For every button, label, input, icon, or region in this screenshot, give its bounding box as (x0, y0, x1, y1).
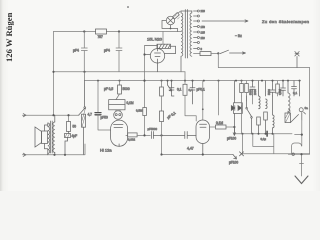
wire jack loop (288, 143, 309, 154)
junction tick (266, 131, 268, 137)
resistor R10 (160, 111, 164, 122)
transformer taps (194, 10, 200, 50)
capacitor C1 (81, 32, 87, 72)
wire transformer top jumper (181, 10, 192, 12)
resistor R9 frame (109, 100, 125, 105)
capacitor arrow down (233, 127, 236, 136)
svg-text:0: 0 (201, 47, 203, 51)
wire mains line (194, 52, 201, 54)
wire bottom right rail (236, 133, 292, 135)
wire grid drop (144, 46, 146, 108)
capacitor C6 (250, 81, 255, 96)
node bl2 (64, 154, 66, 156)
wire railA-railB link (85, 72, 186, 81)
wire bottom left rail (26, 144, 85, 155)
resistor R2 diagonal fuse (172, 12, 180, 32)
svg-text:6a: 6a (305, 106, 309, 110)
svg-text:μF5000: μF5000 (148, 127, 158, 131)
node AF resistor (67, 114, 69, 116)
svg-text:50: 50 (73, 125, 77, 129)
svg-text:Zu den Skalenlampen: Zu den Skalenlampen (262, 19, 309, 24)
transformer T1 primary (181, 11, 183, 72)
capacitor Cg3 (185, 132, 196, 139)
node rail A x84 (83, 71, 85, 73)
labels vertical (249, 89, 283, 95)
ground arrow small (233, 155, 237, 160)
transformer T1 secondary (190, 11, 192, 56)
wire cap drop (97, 81, 99, 112)
resistor R11 (184, 81, 186, 85)
coil L5 former (285, 109, 291, 123)
svg-text:μF 0,5: μF 0,5 (104, 87, 113, 91)
wire right border (309, 68, 311, 155)
svg-text:4,7: 4,7 (88, 113, 93, 117)
coil L2 (264, 81, 268, 134)
tap labels (201, 9, 206, 51)
capacitor C3 series (95, 113, 101, 115)
wire antenna line (218, 67, 309, 69)
wire S3 drop (242, 96, 253, 134)
node dots bottom (242, 133, 274, 135)
svg-text:220: 220 (201, 9, 206, 13)
wire switch drop (217, 53, 219, 67)
resistor R13 (241, 81, 243, 84)
wire lamp feed arrow (202, 20, 248, 22)
svg-text:0,1: 0,1 (293, 91, 298, 95)
svg-text:Hi 12a: Hi 12a (100, 148, 112, 153)
tube V2 (111, 120, 128, 146)
switch S3 (247, 96, 252, 134)
resistor R3 (200, 52, 211, 56)
diode D1 (114, 110, 123, 119)
output transformer T2 primary (48, 123, 50, 155)
wire left bus (53, 32, 55, 116)
resistor R1 (96, 29, 107, 34)
svg-text:μF 0,1: μF 0,1 (166, 111, 176, 120)
wire R10 down (161, 122, 163, 155)
capacitor C9 (65, 132, 71, 155)
svg-text:4,47: 4,47 (187, 147, 194, 151)
resistor R12 (210, 126, 216, 128)
resistor R6 (119, 81, 121, 85)
capacitor C5 (190, 81, 195, 104)
node grid (143, 80, 145, 82)
wire V3 screen (218, 81, 220, 115)
terminal X (240, 152, 244, 156)
resistor R16 (68, 115, 70, 121)
capacitor C4 (169, 81, 174, 96)
node jack (300, 153, 302, 155)
svg-text:0,1μ: 0,1μ (261, 137, 267, 141)
switch S1 (220, 50, 246, 54)
wire AF link segment (137, 134, 150, 136)
svg-text:5000: 5000 (249, 89, 253, 95)
capacitor Ck (151, 132, 184, 139)
terminal AF1 (23, 114, 27, 117)
diodes pair (231, 81, 242, 134)
node R12 (233, 126, 235, 128)
tube V1 (145, 44, 176, 71)
wire rail B (85, 80, 301, 82)
capacitor C2 (116, 32, 122, 72)
node C (217, 52, 219, 54)
svg-text:0,5M: 0,5M (136, 109, 143, 113)
title 126 W Ruegen (4, 13, 14, 62)
resistor R15 (277, 81, 279, 84)
transformer T1 core (185, 10, 187, 59)
svg-text:μF0,1: μF0,1 (197, 88, 205, 92)
output transformer T2 core (51, 121, 53, 153)
svg-text:15L N20: 15L N20 (147, 37, 163, 42)
svg-text:125: 125 (201, 31, 206, 35)
capacitor C8 (281, 81, 286, 96)
wire AF line (26, 114, 79, 116)
wire ground stem (300, 154, 304, 176)
svg-text:0,002: 0,002 (128, 138, 135, 142)
node AF link2 (160, 134, 162, 136)
resistor R9 horizontal (109, 104, 125, 109)
wire V3 anode (202, 81, 204, 120)
speaker terminals (23, 153, 27, 156)
svg-text:0,4: 0,4 (189, 88, 194, 92)
wire lamp drop (162, 32, 164, 45)
wire mid bottom rail (162, 154, 234, 156)
svg-text:757: 757 (98, 35, 104, 39)
speaker SP (35, 125, 48, 155)
node mid rail (160, 153, 162, 155)
wire grid V3 (185, 95, 196, 121)
node AF x54 (52, 114, 54, 116)
node V3 top (202, 108, 204, 110)
tube V3 (196, 120, 210, 155)
ground arrow (295, 176, 308, 184)
svg-text:μF4: μF4 (73, 49, 79, 53)
wire top rail (54, 31, 182, 33)
coil L4 big (288, 81, 290, 113)
node A (83, 30, 85, 32)
node grid top (143, 53, 145, 55)
wire AF link (126, 134, 128, 136)
svg-text:μF50: μF50 (101, 116, 109, 120)
wire bottom loop left (243, 134, 310, 154)
svg-text:~ Bz: ~ Bz (235, 34, 242, 38)
switch S2 (79, 81, 86, 116)
svg-text:0,1: 0,1 (177, 88, 182, 92)
terminal ring (292, 153, 294, 155)
switch S4 (291, 81, 306, 123)
svg-text:2000: 2000 (253, 89, 257, 95)
wire mains to node (212, 52, 219, 54)
svg-text:0,1M: 0,1M (216, 121, 223, 125)
resistor Rc (128, 133, 137, 137)
node jack top (301, 134, 303, 136)
coil L3 (273, 96, 275, 134)
resistor R14 (246, 81, 248, 84)
diode arrow (168, 81, 172, 91)
svg-text:μF100: μF100 (229, 161, 238, 165)
wire R10 link (161, 96, 163, 111)
svg-text:150: 150 (201, 25, 206, 29)
wire cap to tube (98, 115, 111, 130)
node railB dots (97, 80, 301, 82)
wire jack link (295, 120, 302, 146)
svg-text:μF100: μF100 (227, 137, 236, 141)
resistor Rg (143, 108, 147, 116)
svg-text:μF4: μF4 (104, 49, 110, 53)
node rail A left (52, 71, 54, 73)
node B (118, 30, 120, 32)
coil L1 (257, 81, 261, 134)
resistor R10a (161, 81, 163, 87)
svg-text:110: 110 (201, 36, 206, 40)
resistor R4 hatched (145, 44, 176, 53)
wire rail A (54, 71, 186, 73)
output transformer T2 secondary (53, 115, 55, 155)
svg-text:4μF: 4μF (72, 134, 78, 138)
dust speck (127, 6, 129, 8)
lamp La (162, 16, 178, 29)
svg-text:0,1M: 0,1M (127, 101, 134, 105)
resistor R7 (82, 108, 86, 155)
svg-text:5000: 5000 (123, 87, 130, 91)
capacitor C7 (270, 81, 275, 96)
antenna terminal (295, 52, 299, 68)
wire R6 to R9 (116, 94, 120, 100)
node AF link (143, 134, 145, 136)
node bl1 (53, 154, 55, 156)
wire R12 out (226, 126, 234, 128)
